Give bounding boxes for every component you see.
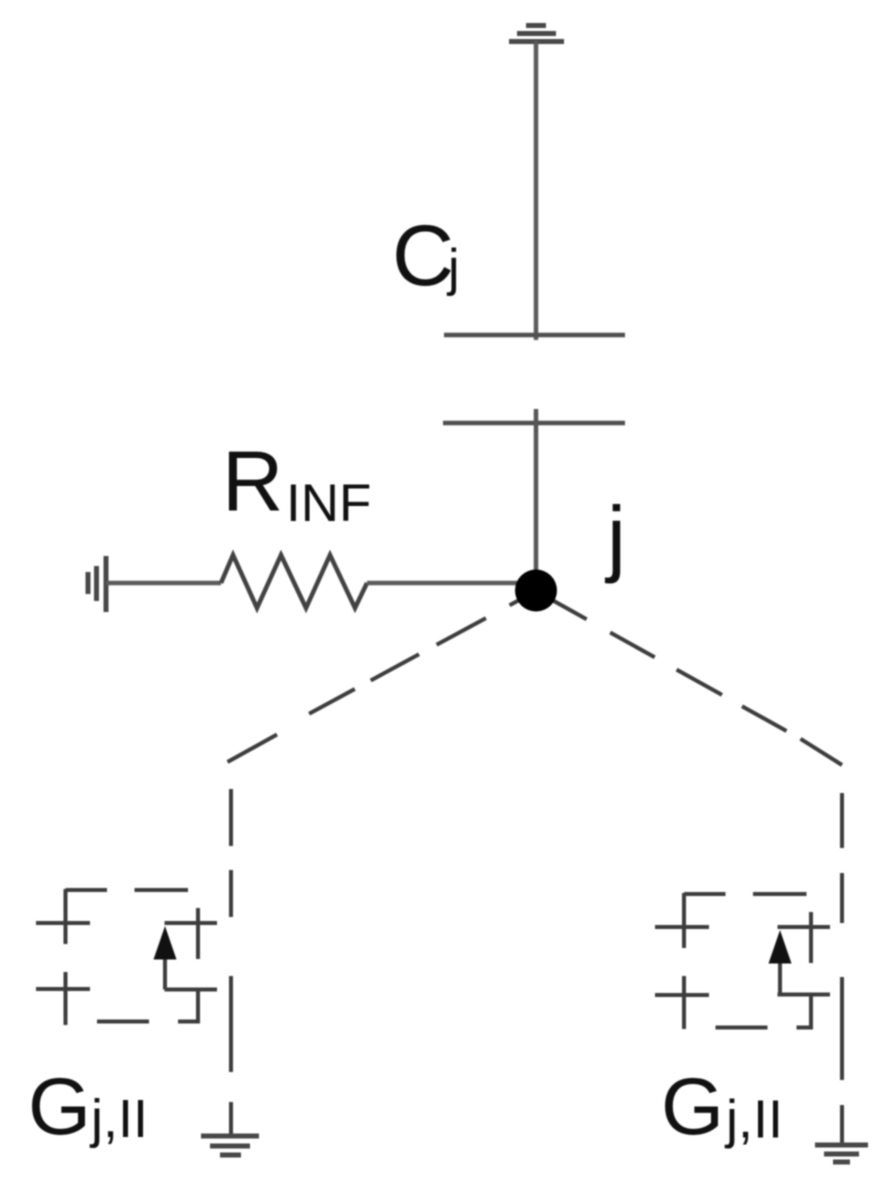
ground top (at capacitor top) [509,26,564,42]
current source G_j,II right: dashed box [684,893,811,1030]
dashed wire right elbow down to bottom-right ground [840,793,844,1143]
dashed wire node j to right elbow [536,591,842,765]
dashed wire left elbow down to bottom-left ground [229,789,233,1134]
current source left: arrow [154,926,177,990]
svg-text:j: j [446,239,460,297]
svg-text:j: j [604,490,626,585]
ground bottom-left [201,1136,259,1155]
svg-text:R: R [222,435,283,530]
wire from left ground to resistor R_INF [106,581,221,586]
ground bottom-right [815,1145,868,1162]
svg-text:j,II: j,II [724,1090,783,1150]
svg-text:G: G [661,1062,724,1152]
svg-text:C: C [392,208,454,304]
wire from top ground to capacitor top plate [534,41,539,340]
node j junction dot [515,570,557,612]
capacitor C_j bottom plate [443,421,625,426]
dashed wire node j to left elbow [228,591,537,762]
capacitor C_j top plate [444,333,625,338]
current source G_j,II left: dashed box [66,889,199,1025]
svg-text:j,II: j,II [89,1089,148,1149]
current source left: pin ticks [36,923,217,990]
current source right: pin ticks [655,927,830,995]
wire from resistor R_INF to node j [367,581,530,586]
resistor R_INF zigzag [221,555,367,608]
svg-text:G: G [28,1062,91,1152]
current source right: arrow [769,930,792,995]
ground left (at resistor R_INF left end) [88,556,106,612]
svg-text:INF: INF [286,474,371,533]
wire from capacitor bottom plate to node j [534,409,539,591]
